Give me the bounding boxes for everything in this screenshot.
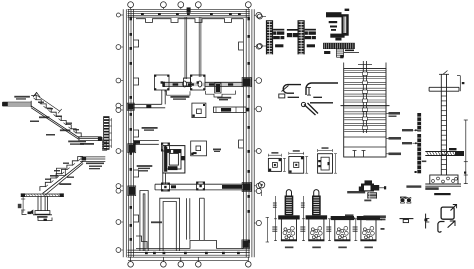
left wall pad at y148 (128, 144, 136, 153)
column pad G1 (161, 183, 170, 192)
stairwell plan nested walls (163, 146, 185, 173)
corner detail label left (347, 191, 365, 193)
S-of text (400, 197, 407, 199)
footing bracket glyph b (28, 210, 34, 214)
column pad F3 right wall (242, 78, 251, 87)
label OO-4 (364, 247, 373, 249)
footing lower tick (44, 219, 47, 221)
upper stair top landing (2, 101, 31, 108)
bar segment c (310, 102, 333, 104)
bar label 1 (402, 129, 418, 131)
pier section OO-4 (357, 216, 380, 241)
footing outline below band left (164, 91, 190, 95)
wall section label EPA (386, 112, 400, 117)
right dimension line (464, 120, 468, 184)
pier section OO-3 (331, 216, 354, 241)
strip footing U3 (200, 198, 205, 240)
tiny glyph col (381, 219, 386, 230)
footing scale bar (434, 193, 450, 195)
footing label (425, 187, 438, 190)
grid bubbles bottom row (128, 257, 251, 267)
hatched pier (vertical) (215, 83, 221, 93)
plan top footing strip inner edge (136, 19, 243, 23)
upper middle wall band (163, 82, 243, 86)
label OO-1 (285, 247, 294, 249)
lower stair label rows (68, 141, 104, 170)
square pad detail S-B (191, 141, 207, 156)
upper stair dim text 2 (60, 129, 70, 131)
wall section label N2 (386, 153, 401, 156)
lower stair steps (40, 157, 83, 191)
stair plan top mark (345, 9, 350, 11)
plan left footing strip notches (134, 40, 139, 222)
lower stair mini ladder (101, 140, 103, 150)
hook diagonal tick (282, 86, 289, 92)
stairwell to band connector (163, 173, 166, 184)
wall jog at y142 (133, 140, 159, 144)
interior wall line B (col 4) (199, 17, 201, 77)
bent-up bar diagonal (301, 102, 318, 115)
pier dim OO-4 (353, 219, 358, 241)
plan outer foundation wall (123, 9, 254, 260)
zigzag wall pad F1 to left wall (134, 82, 166, 108)
plan bottom footing strip inner edge (136, 241, 243, 249)
small junction box between pads (184, 78, 191, 86)
wall section label N1 (386, 137, 401, 140)
footing bracket glyph a (22, 211, 27, 215)
grid bubbles left column (116, 13, 123, 252)
grid bubble B (258, 182, 264, 196)
corner detail label below (364, 200, 371, 202)
lower stair left dim (18, 196, 25, 212)
left wall pad at y190 (128, 186, 136, 196)
garage strip footing U1 (140, 191, 148, 252)
footing plan sq3 (318, 147, 337, 173)
dash group c (400, 219, 414, 223)
stair wall section strip (103, 116, 112, 150)
far left dim line (266, 217, 269, 242)
tee beam detail (323, 43, 359, 57)
bent bar hook detail (283, 85, 301, 94)
upper stair lower labels (30, 121, 55, 136)
grid bubbles top row (128, 2, 252, 10)
footing plan sq1 (268, 152, 285, 171)
column footing (425, 175, 461, 186)
pier dim OO-2 (300, 196, 305, 241)
pad bottom-right corner (242, 240, 250, 249)
garage strip footing U2 (160, 198, 180, 251)
lower middle wall band (155, 184, 243, 190)
label OO-2 (312, 247, 321, 249)
left tick bar (424, 214, 429, 229)
bent bar L detail (306, 83, 338, 95)
bar strip small text (422, 161, 427, 163)
J hook bar (438, 222, 445, 233)
column pad F2 (190, 75, 205, 91)
square pad detail S-A (192, 103, 206, 118)
label GARAGE (151, 221, 162, 223)
hatched grade beam right (214, 107, 250, 113)
lower stair slab (43, 161, 84, 195)
label SSS near S-B (213, 149, 221, 153)
ground tie beam (425, 148, 464, 156)
upper stair landing text (80, 143, 94, 145)
footing lower bracket (38, 218, 52, 221)
column pad F4 left wall (127, 103, 134, 110)
pier section OO-2 (306, 190, 328, 242)
bar segment b (313, 96, 322, 98)
tick far right (415, 171, 417, 173)
bent arrow bar (448, 221, 455, 228)
upper stair landing label (14, 96, 30, 100)
stair landing plan detail (dark) (326, 12, 349, 40)
upper stair slab (31, 106, 79, 140)
upper stair slope dim line (34, 92, 62, 113)
upper stair bottom landing (78, 137, 102, 141)
top band center tick (187, 7, 191, 12)
lower stair top landing (80, 157, 105, 162)
bar segment a (288, 96, 299, 98)
beam-column junction detail D1 (266, 20, 284, 54)
inner corner steps (136, 236, 147, 248)
lower stair column and footing (21, 193, 64, 214)
hook anchor square (279, 94, 285, 98)
pier dim OO-3 (326, 219, 331, 241)
label POOL SPA-A (217, 97, 231, 101)
plan right footing strip notches (239, 42, 244, 148)
upper stair step notes (38, 102, 79, 131)
column elevation (429, 71, 464, 176)
lower stair footing label (37, 216, 47, 218)
pier dim OO-1 (272, 196, 277, 241)
tie glyph pair (400, 197, 411, 203)
wall section with rebar ladder (341, 61, 390, 157)
label FOOTING F-A (170, 96, 189, 100)
column pad G3 right (242, 183, 251, 192)
dash group a (345, 214, 355, 219)
rebar I-section mark (307, 87, 311, 95)
section cut diamond (33, 93, 40, 98)
stirrup box (441, 207, 454, 219)
lower stair step notes (45, 163, 74, 180)
pad at stairwell top (161, 143, 170, 152)
rebar bar schedule strip (417, 113, 421, 173)
lower stair mid text (50, 175, 58, 177)
label PATIO (137, 165, 153, 171)
dash group b (363, 215, 386, 220)
bar label 2 (402, 142, 418, 144)
detail D1 grid bubble b (257, 44, 266, 49)
column pad G2 (196, 182, 205, 191)
wall rebar tick marks (130, 13, 250, 254)
column oval at line A (183, 81, 187, 87)
pier section OO-1 (278, 190, 300, 242)
lower stair dim text (59, 183, 71, 185)
room divider wall (186, 198, 189, 239)
upper stair steps (31, 96, 81, 138)
stirrup hook arrow (451, 204, 457, 210)
detail D1 grid bubble a (257, 14, 266, 19)
label OO-3 (338, 247, 347, 249)
corner junction detail (359, 180, 386, 198)
beam-column junction detail D2 (287, 20, 316, 54)
column pad F1 (154, 75, 169, 91)
upper stair dim text 1 (39, 116, 50, 118)
pedestal label (406, 185, 421, 187)
plan right footing inner edge (242, 19, 244, 249)
column oval at line B (198, 81, 202, 87)
footing plan sq2 (289, 150, 308, 173)
footing outline below band right (206, 91, 236, 98)
interior wall line A (col 3) (185, 17, 187, 79)
label FOOTING F left (142, 127, 158, 131)
wall section corner mark (340, 56, 343, 59)
grid bubbles right column (254, 12, 261, 225)
